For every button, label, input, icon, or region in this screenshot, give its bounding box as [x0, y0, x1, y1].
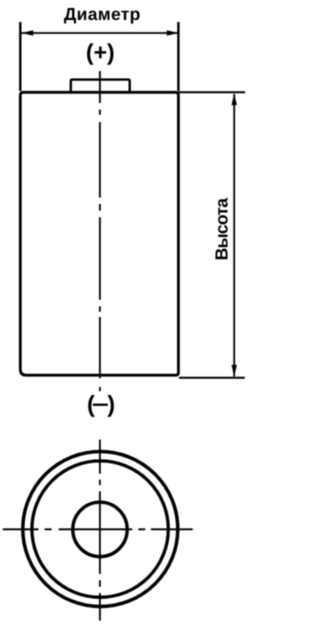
svg-text:): ): [107, 391, 115, 417]
svg-text:Диаметр: Диаметр: [64, 4, 141, 24]
svg-text:(+): (+): [86, 39, 115, 65]
svg-text:Высота: Высота: [212, 198, 232, 261]
